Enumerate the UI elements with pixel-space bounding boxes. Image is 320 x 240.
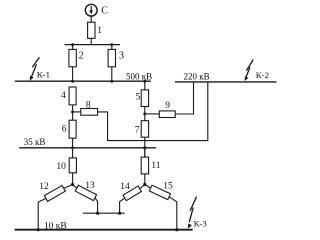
element 6 [69, 120, 76, 138]
junction bus500-5 [143, 80, 146, 83]
fault K-1 [30, 57, 40, 81]
junction connector-14 [118, 212, 121, 215]
svg-text:35 кВ: 35 кВ [24, 137, 46, 147]
generator C [85, 4, 97, 16]
wire element 8 to 220kV bus [98, 82, 208, 141]
junction bus10-12 [37, 228, 40, 231]
wire element 15 to 10kV bus [169, 197, 177, 230]
connector 13-14 [83, 212, 125, 214]
wire element 3 to 500kV bus [111, 67, 113, 81]
svg-text:13: 13 [85, 181, 95, 191]
junction connector-13 [96, 212, 99, 215]
junction bus10-15 [175, 228, 178, 231]
wire node to element 2 [72, 45, 74, 50]
wire element 10 to star1 [72, 173, 74, 185]
wire element 14 to connector [120, 198, 125, 213]
bus 35 kV [19, 147, 156, 149]
wire element 11 to star2 [144, 174, 146, 185]
element 13 [75, 185, 96, 200]
star point 2 [143, 183, 146, 186]
element 5 [141, 90, 148, 107]
element 15 [149, 185, 170, 199]
wire element 5 to junction [144, 107, 146, 121]
svg-text:4: 4 [61, 91, 66, 101]
svg-text:2: 2 [79, 50, 84, 61]
wire element 13 to connector [95, 198, 98, 214]
wire star2 to element 15 [145, 185, 151, 189]
element 4 [69, 87, 76, 105]
element 12 [44, 185, 65, 201]
wire element 7 to 35kV bus and element 11 [144, 137, 146, 157]
svg-text:8: 8 [86, 100, 91, 110]
element 8 [81, 109, 98, 116]
bus 10 kV [15, 229, 193, 231]
wire star2 to element 14 [140, 185, 145, 189]
fault K-2 [245, 60, 254, 81]
wire junction to element 9 [145, 113, 160, 115]
element 7 [141, 121, 148, 138]
wire bus35 to element 11 [144, 148, 146, 157]
element 10 [69, 158, 76, 173]
wire bus500 to element 5 [144, 81, 146, 90]
wire element 9 to 220kV bus [175, 82, 193, 114]
svg-text:10: 10 [56, 162, 66, 172]
element 2 [69, 49, 76, 66]
element 9 [159, 111, 175, 118]
wire junction to element 8 [73, 111, 81, 113]
svg-text:9: 9 [165, 101, 170, 111]
junction bus500-3 [110, 80, 113, 83]
junction node-2 [71, 43, 74, 46]
wire generator to element 1 [90, 16, 92, 22]
svg-text:10 кВ: 10 кВ [44, 222, 67, 232]
svg-text:7: 7 [135, 126, 140, 136]
wire node to element 3 [111, 45, 113, 50]
svg-text:11: 11 [151, 161, 160, 171]
fault K-3 [188, 197, 197, 229]
wire star1 to element 12 [64, 185, 73, 189]
bus 220 kV [175, 81, 277, 83]
element 1 [88, 22, 95, 38]
wire bus35 to element 10 [72, 148, 74, 158]
wire element 6 to 35kV bus [72, 138, 74, 148]
wire element 1 to node line [90, 38, 92, 44]
svg-text:3: 3 [119, 50, 124, 61]
junction bus35-7-11 [143, 146, 146, 149]
svg-text:12: 12 [39, 182, 49, 192]
junction 5-9-7 [143, 112, 146, 115]
element 3 [108, 49, 115, 66]
wire element 4 to junction [72, 105, 74, 120]
wire element 2 to 500kV bus [72, 67, 74, 81]
bus 500 kV [15, 80, 151, 82]
svg-text:К-3: К-3 [194, 219, 208, 229]
svg-text:С: С [101, 5, 108, 16]
junction node-3 [110, 43, 113, 46]
junction bus35-6-10 [71, 146, 74, 149]
wire element 12 to 10kV bus [38, 199, 46, 230]
star point 1 [71, 183, 74, 186]
wire star1 to element 13 [73, 185, 77, 189]
svg-text:15: 15 [163, 182, 173, 192]
svg-text:1: 1 [97, 26, 102, 36]
junction 4-8-6 [71, 110, 74, 113]
element 14 [123, 186, 141, 201]
svg-text:5: 5 [136, 93, 141, 103]
svg-text:500 кВ: 500 кВ [126, 71, 152, 81]
junction bus500-2 [71, 80, 74, 83]
svg-text:14: 14 [120, 182, 130, 192]
svg-text:220 кВ: 220 кВ [184, 72, 210, 82]
svg-text:К-1: К-1 [37, 69, 50, 79]
element 11 [141, 157, 148, 174]
svg-text:К-2: К-2 [256, 70, 269, 80]
svg-text:6: 6 [62, 124, 67, 134]
node line [65, 44, 121, 46]
